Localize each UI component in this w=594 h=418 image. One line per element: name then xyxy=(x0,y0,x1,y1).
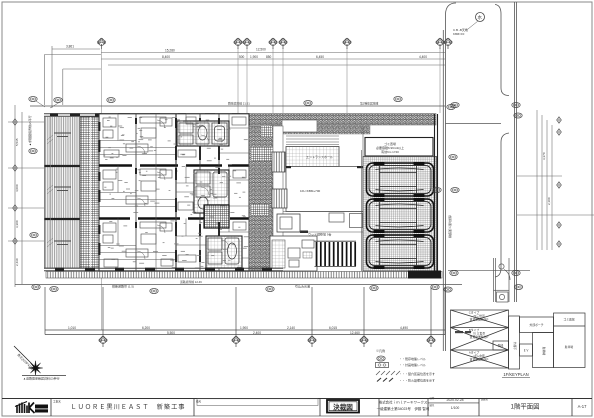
svg-text:4,000: 4,000 xyxy=(15,184,19,192)
svg-text:1F/KEYPLAN: 1F/KEYPLAN xyxy=(503,372,528,377)
svg-text:6,015: 6,015 xyxy=(329,326,337,330)
svg-text:階段: 階段 xyxy=(498,344,504,348)
svg-text:一級建築士第34023号 伊藤 智司: 一級建築士第34023号 伊藤 智司 xyxy=(377,406,430,411)
svg-text:・・・竪穴区画位置を示す: ・・・竪穴区画位置を示す xyxy=(399,371,435,376)
svg-text:工事名: 工事名 xyxy=(53,399,61,403)
svg-text:外部ポーチ: 外部ポーチ xyxy=(530,323,544,327)
svg-text:決裁図: 決裁図 xyxy=(333,403,353,412)
svg-text:2020.02.28: 2020.02.28 xyxy=(447,398,464,402)
svg-text:500: 500 xyxy=(239,55,245,59)
svg-text:3,300: 3,300 xyxy=(15,220,19,228)
svg-text:・・・防火設備位置を示す: ・・・防火設備位置を示す xyxy=(399,378,435,383)
svg-text:K8M=±0: K8M=±0 xyxy=(453,32,465,36)
svg-text:水: 水 xyxy=(478,14,483,20)
svg-text:1,900: 1,900 xyxy=(250,55,258,59)
svg-text:外廊下: 外廊下 xyxy=(513,342,517,351)
svg-text:ＬＵＯＲＥ黒川ＥＡＳＴ 新築工事: ＬＵＯＲＥ黒川ＥＡＳＴ 新築工事 xyxy=(71,403,186,411)
svg-text:15,280: 15,280 xyxy=(165,49,175,53)
svg-text:横断通路帯 (1.5): 横断通路帯 (1.5) xyxy=(112,284,134,289)
svg-text:▲道路関係確認資料(2)参行: ▲道路関係確認資料(2)参行 xyxy=(23,376,60,381)
svg-text:ウッド調整場 9台: ウッド調整場 9台 xyxy=(308,232,332,237)
svg-text:賃貸密糞時化P: 賃貸密糞時化P xyxy=(470,335,489,339)
svg-text:6,450: 6,450 xyxy=(316,55,324,59)
svg-text:850: 850 xyxy=(266,55,272,59)
svg-text:A-17: A-17 xyxy=(578,404,588,409)
svg-text:2,430: 2,430 xyxy=(15,258,19,266)
svg-text:有効6m 1740: 有効6m 1740 xyxy=(381,149,399,154)
svg-text:1階平面図: 1階平面図 xyxy=(510,402,539,411)
svg-text:縮尺: 縮尺 xyxy=(430,403,435,407)
svg-text:12,460: 12,460 xyxy=(350,331,360,335)
svg-text:5,500: 5,500 xyxy=(167,331,175,335)
svg-text:4,400: 4,400 xyxy=(419,55,427,59)
svg-text:第2種住居地域: 第2種住居地域 xyxy=(360,102,379,106)
svg-text:2,100: 2,100 xyxy=(547,197,551,205)
svg-text:・・既存地盤レベル: ・・既存地盤レベル xyxy=(399,356,426,361)
svg-text:12,500: 12,500 xyxy=(256,48,266,52)
svg-text:・・計画地盤レベル: ・・計画地盤レベル xyxy=(399,362,426,367)
svg-text:日付: 日付 xyxy=(430,396,435,400)
svg-text:駐輪場: 駐輪場 xyxy=(542,347,546,356)
svg-text:▲求積図境界線(2)平行: ▲求積図境界線(2)平行 xyxy=(27,115,32,146)
svg-text:6,200: 6,200 xyxy=(142,326,150,330)
svg-text:1,010: 1,010 xyxy=(68,326,76,330)
svg-text:エントランスホール: エントランスホール xyxy=(306,154,333,159)
svg-text:8,400: 8,400 xyxy=(162,55,170,59)
svg-text:賃貸密糞時化P: 賃貸密糞時化P xyxy=(470,318,489,322)
svg-text:引込み元溝: 引込み元溝 xyxy=(295,284,310,289)
svg-text:2,140: 2,140 xyxy=(287,326,295,330)
svg-text:※凡例: ※凡例 xyxy=(376,348,385,353)
svg-text:ゴミ置場: ゴミ置場 xyxy=(563,318,574,322)
svg-text:1FL=KBM+700: 1FL=KBM+700 xyxy=(300,189,321,193)
svg-text:駐車場: 駐車場 xyxy=(565,345,574,349)
svg-text:3,861: 3,861 xyxy=(66,45,74,49)
svg-text:1,900: 1,900 xyxy=(240,326,248,330)
svg-text:5,535: 5,535 xyxy=(15,138,19,146)
svg-text:隣地境界線 21.51: 隣地境界線 21.51 xyxy=(228,102,250,106)
svg-text:2,400: 2,400 xyxy=(253,331,261,335)
svg-text:図面名: 図面名 xyxy=(481,397,489,401)
svg-text:3,370: 3,370 xyxy=(542,152,546,160)
svg-text:賃貸密糞時化P: 賃貸密糞時化P xyxy=(470,358,489,362)
svg-text:株式会社ｉｍｌアーキワークス: 株式会社ｉｍｌアーキワークス xyxy=(379,400,428,405)
svg-text:4,490: 4,490 xyxy=(400,326,408,330)
svg-text:1/100: 1/100 xyxy=(451,406,460,410)
svg-text:(仮称)黒川東部線: (仮称)黒川東部線 xyxy=(448,215,453,238)
svg-text:道路境界線 12.46: 道路境界線 12.46 xyxy=(180,280,202,284)
svg-text:ＥＶ: ＥＶ xyxy=(523,349,529,353)
